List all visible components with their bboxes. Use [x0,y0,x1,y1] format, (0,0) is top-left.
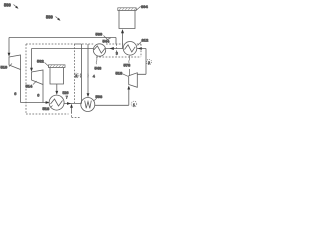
svg-text:1: 1 [133,103,135,107]
wire: 562 outlet down into 516 [56,84,58,92]
svg-text:612: 612 [142,38,149,43]
wire: 518 outlet to 612 [137,49,146,75]
svg-text:2: 2 [148,61,150,65]
svg-text:4: 4 [93,75,95,79]
svg-text:7: 7 [66,95,68,99]
svg-text:514: 514 [26,84,33,89]
label 544 with arrow into 586 [103,38,114,50]
vessel 562 [49,65,66,84]
label 518 [116,70,129,76]
wire: left vertical into turbine 510 [8,38,10,54]
svg-text:518: 518 [116,70,123,75]
wire: 516 to pump [64,103,82,105]
svg-text:604: 604 [141,4,148,9]
wire: bottom branch up arrow [71,107,73,113]
label 516 [43,106,53,112]
svg-text:516: 516 [43,106,50,111]
arrowhead right into 516 [46,101,50,104]
connector circle 8 [74,73,79,78]
turbine 510 [9,55,21,70]
wire break marks on verticals [80,74,82,78]
heat exchanger 612 [123,42,137,56]
svg-text:6: 6 [37,94,39,98]
dashed partition x=74 [74,44,76,103]
svg-text:580: 580 [46,15,54,20]
connector circle 1 [131,101,137,107]
arrowhead down into 510 [8,53,11,57]
wire: 514 outlet down [42,85,44,103]
svg-text:500: 500 [4,3,12,8]
label 580 [46,15,61,21]
arrowhead down into 516 [55,91,58,95]
wire: vertical drop x=88.5 into pump [87,44,89,94]
dashed partition x=117 [116,44,118,57]
label 560 [96,32,109,41]
label 514 [26,81,37,89]
label 604 [137,4,149,10]
dashed inner bottom y=57 [96,56,141,58]
compressor 514 [32,70,44,85]
label 578 squiggle [124,56,131,77]
svg-text:6: 6 [14,92,16,96]
svg-text:596: 596 [96,94,103,99]
turbine 518 [129,73,138,88]
arrowhead down into 514 [30,68,33,72]
svg-text:8: 8 [75,74,77,78]
wire: vertical drop x=81 from dashed boundary [74,44,82,104]
svg-text:548: 548 [95,65,102,70]
connector circle 2 [146,59,151,64]
label 510 [1,64,13,70]
svg-text:544: 544 [103,39,110,44]
label 500 [4,3,19,9]
wire: pump outlet to turbine 518 [95,89,129,105]
wire: bottom horizontal to HX 516 [21,102,47,104]
arrowhead up into 518 [127,86,130,90]
label 612 [138,38,149,46]
arrowhead left into 612 [138,47,142,50]
heat exchanger 516 [49,95,64,110]
dashed box outer [26,44,141,118]
svg-text:562: 562 [37,59,44,64]
svg-text:578: 578 [124,62,131,67]
wire: corner down into 514 [31,49,33,69]
arrowhead down into pump [87,93,90,97]
arrowhead up into 604 [121,29,124,33]
svg-text:3: 3 [116,52,118,56]
label 562 [37,59,49,67]
pump 596 [81,98,95,112]
svg-text:526: 526 [63,91,69,95]
svg-text:510: 510 [1,65,8,70]
heat exchanger 586 [93,44,105,56]
wire: riser to vessel 604 [122,33,124,49]
arrowhead right on that line [67,102,71,105]
wire: 510 outlet down [20,70,22,103]
label 548 squiggle [95,57,102,71]
wire: top horizontal line y=37.5 [9,38,116,45]
vessel 604 [118,8,136,29]
wire: main line y=48.5 [32,48,147,50]
label 596 [94,94,103,101]
svg-text:560: 560 [96,32,103,37]
